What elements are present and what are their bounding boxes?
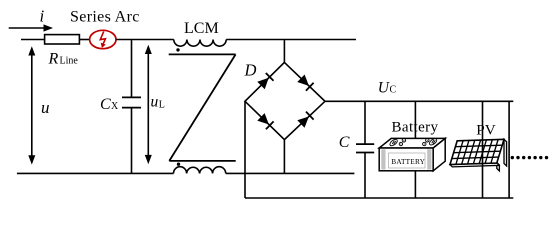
common-mode choke LCM primary winding [174, 40, 226, 47]
svg-text:Battery: Battery [392, 120, 439, 136]
wire arc source to choke [116, 39, 174, 41]
svg-text:Line: Line [60, 56, 79, 67]
wire bridge top tap [283, 40, 285, 63]
voltage arrow uL [145, 45, 152, 165]
svg-text:C: C [339, 134, 350, 151]
capacitor CX plates [122, 97, 141, 107]
svg-text:u: u [41, 98, 50, 117]
svg-text:u: u [151, 94, 159, 111]
battery body [379, 138, 445, 170]
transformer core Z top bar [169, 53, 236, 55]
continuation dots [511, 156, 549, 159]
svg-text:LCM: LCM [184, 20, 219, 37]
capacitor C plates [356, 144, 374, 152]
svg-text:L: L [159, 100, 165, 111]
capacitor CX bottom lead [131, 108, 133, 174]
svg-text:R: R [48, 51, 59, 68]
wire PV lead [482, 101, 484, 198]
wire bottom AC bus left [17, 172, 174, 174]
diode D4 bottom-right [297, 112, 313, 128]
capacitor CX top lead [131, 40, 133, 98]
PV panel edge strip [450, 163, 499, 167]
wire resistor to arc source [79, 39, 89, 41]
svg-text:Series Arc: Series Arc [70, 9, 140, 26]
battery terminal left [389, 138, 406, 147]
wire battery bottom lead [414, 171, 416, 198]
wire bridge negative drop [244, 101, 246, 198]
svg-text:X: X [111, 101, 119, 112]
polarity dot primary [176, 48, 179, 51]
svg-text:BATTERY: BATTERY [391, 157, 425, 166]
PV panel grid [452, 140, 502, 165]
capacitor C top lead [364, 101, 366, 144]
polarity dot secondary [177, 163, 180, 166]
svg-text:D: D [244, 60, 257, 79]
svg-text:PV: PV [476, 121, 495, 138]
PV panel support [497, 139, 507, 171]
wire right end vertical [508, 101, 510, 198]
diode D1 top-left [257, 73, 273, 89]
voltage arrow u [28, 46, 35, 164]
wire DC bottom bus [245, 197, 513, 199]
svg-text:C: C [100, 96, 111, 113]
battery terminal right [423, 137, 438, 146]
arc-fault source (Series Arc) [90, 30, 116, 48]
wire battery top lead [414, 101, 416, 141]
capacitor C bottom lead [364, 153, 366, 199]
wire bottom AC bus right [226, 172, 355, 174]
wire top bus left segment [21, 39, 45, 41]
PV panel surface [450, 139, 504, 164]
wire choke to bridge tap [226, 39, 356, 41]
current arrow i [9, 24, 53, 31]
diode D3 bottom-left [257, 113, 273, 129]
transformer core Z bottom bar [169, 160, 235, 162]
resistor RLine [45, 35, 80, 44]
diode bridge D diamond [245, 62, 325, 139]
wire bridge bottom tap [283, 140, 285, 174]
wire UC bus [325, 100, 513, 102]
svg-text:i: i [40, 7, 45, 26]
common-mode choke LCM secondary winding [174, 167, 226, 174]
diode D2 top-right [297, 75, 313, 91]
transformer core Z diagonal [169, 54, 235, 160]
svg-text:C: C [390, 85, 397, 96]
